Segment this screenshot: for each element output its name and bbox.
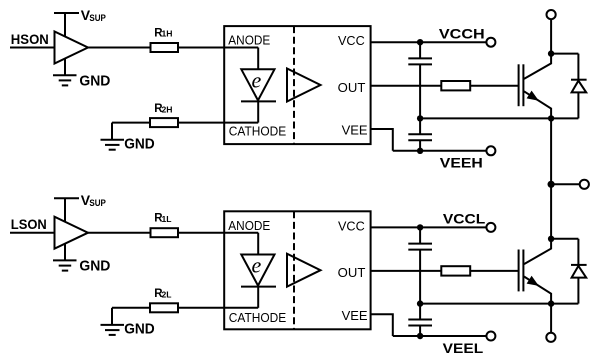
svg-text:CATHODE: CATHODE <box>229 310 287 325</box>
svg-text:e: e <box>252 68 262 93</box>
svg-text:VEEH: VEEH <box>440 155 483 171</box>
svg-text:VEEL: VEEL <box>443 340 484 356</box>
svg-text:1H: 1H <box>162 29 173 39</box>
svg-text:CATHODE: CATHODE <box>229 124 287 139</box>
svg-text:GND: GND <box>79 258 110 275</box>
svg-text:GND: GND <box>79 72 110 89</box>
svg-text:GND: GND <box>124 321 155 338</box>
svg-text:HSON: HSON <box>11 31 49 47</box>
svg-text:1L: 1L <box>162 214 172 224</box>
svg-text:OUT: OUT <box>338 265 366 280</box>
svg-text:ANODE: ANODE <box>228 33 270 48</box>
svg-text:VEE: VEE <box>342 122 368 137</box>
svg-text:GND: GND <box>124 135 155 152</box>
svg-text:2H: 2H <box>162 104 173 114</box>
svg-text:e: e <box>252 253 262 278</box>
svg-text:OUT: OUT <box>338 80 366 95</box>
svg-text:VCC: VCC <box>338 218 365 233</box>
svg-text:VCCL: VCCL <box>443 211 486 227</box>
svg-text:ANODE: ANODE <box>228 218 270 233</box>
svg-text:2L: 2L <box>162 290 172 300</box>
svg-text:VCC: VCC <box>338 33 365 48</box>
svg-text:SUP: SUP <box>89 198 106 209</box>
svg-text:VCCH: VCCH <box>439 25 485 41</box>
svg-text:SUP: SUP <box>89 13 106 24</box>
svg-text:LSON: LSON <box>11 216 47 232</box>
svg-text:VEE: VEE <box>342 308 368 323</box>
